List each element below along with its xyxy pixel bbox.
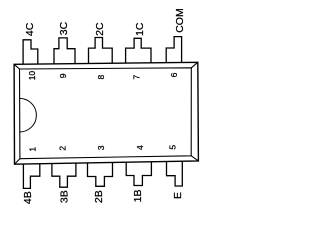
svg-text:10: 10 [27, 71, 37, 81]
svg-text:3B: 3B [59, 190, 71, 203]
svg-text:1B: 1B [132, 190, 144, 203]
svg-text:8: 8 [96, 75, 106, 80]
svg-text:9: 9 [58, 73, 68, 78]
svg-text:3C: 3C [58, 21, 70, 35]
svg-text:4: 4 [135, 145, 145, 150]
svg-text:2: 2 [58, 146, 68, 151]
svg-text:3: 3 [96, 145, 106, 150]
svg-text:4C: 4C [24, 22, 36, 36]
svg-text:5: 5 [168, 145, 178, 150]
svg-text:1C: 1C [134, 22, 146, 36]
svg-text:1: 1 [27, 147, 37, 152]
svg-text:6: 6 [169, 72, 179, 77]
svg-text:7: 7 [132, 75, 142, 80]
svg-text:4B: 4B [22, 191, 34, 204]
svg-text:2B: 2B [93, 190, 105, 203]
svg-text:E: E [172, 192, 184, 199]
svg-text:2C: 2C [94, 22, 106, 36]
svg-text:COM: COM [174, 8, 186, 33]
